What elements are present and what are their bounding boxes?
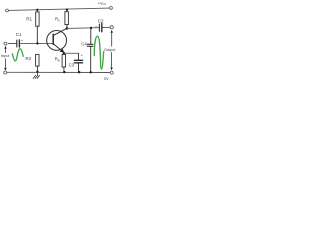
node junction top rail above Rc — [66, 9, 68, 11]
terminal output top — [110, 26, 113, 29]
transistor Q1 — [47, 28, 67, 53]
node bottom rail below Re — [63, 71, 65, 73]
node junction top rail above R1 — [36, 9, 38, 11]
capacitor C1 — [8, 40, 53, 47]
input arrow upper — [4, 46, 6, 53]
terminal +Vcc top-right — [110, 7, 113, 10]
node collector junction — [66, 27, 69, 30]
node bottom rail below C3 — [78, 71, 80, 73]
svg-text:R2: R2 — [25, 56, 31, 61]
terminal top-left — [6, 9, 9, 12]
node bottom rail below R2 — [36, 71, 38, 73]
node junction C4 branch — [90, 27, 92, 29]
svg-text:RE: RE — [55, 57, 60, 63]
svg-text:Input: Input — [1, 53, 11, 58]
svg-text:C2: C2 — [98, 18, 104, 23]
wire top supply rail — [8, 8, 109, 10]
resistor R2 — [36, 54, 39, 71]
output arrow lower — [110, 52, 112, 70]
wire collector to C2 — [67, 27, 99, 30]
svg-text:R1: R1 — [26, 17, 32, 22]
input sine wave — [12, 49, 23, 61]
terminal input top — [4, 42, 7, 45]
ground — [33, 72, 39, 78]
svg-text:+: + — [21, 38, 24, 43]
svg-text:0V: 0V — [104, 76, 109, 81]
emitter node junction — [63, 52, 65, 54]
capacitor C4 — [87, 28, 93, 72]
svg-text:Output: Output — [104, 48, 116, 52]
input arrow lower — [4, 59, 6, 71]
terminal input bottom — [4, 71, 7, 74]
output sine wave — [94, 36, 104, 69]
node base junction — [36, 42, 38, 44]
wire bottom 0V rail — [7, 71, 111, 73]
capacitor C3 — [74, 53, 82, 72]
resistor R1 — [36, 10, 39, 44]
terminal output bottom — [110, 71, 113, 74]
output arrow upper — [111, 30, 113, 46]
svg-text:+: + — [81, 53, 84, 58]
resistor Rc — [65, 10, 69, 28]
wire emitter bus — [64, 52, 79, 54]
capacitor C2 — [99, 24, 110, 32]
resistor Re — [62, 53, 66, 72]
svg-text:+VCC: +VCC — [98, 2, 107, 6]
svg-text:C1: C1 — [16, 32, 22, 37]
svg-text:C4: C4 — [81, 41, 87, 46]
node bottom rail below C4 — [90, 71, 92, 73]
svg-text:C3: C3 — [69, 62, 75, 67]
svg-text:RC: RC — [55, 16, 61, 22]
